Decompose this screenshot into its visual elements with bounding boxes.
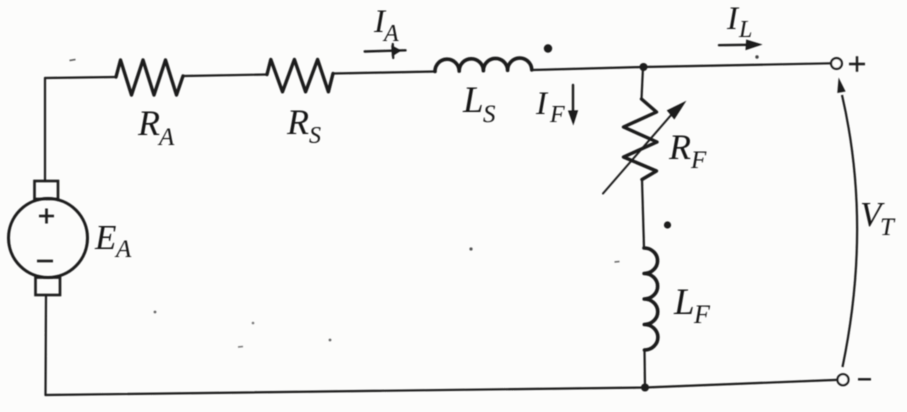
svg-text:I: I <box>535 86 549 122</box>
svg-text:F: F <box>690 147 707 174</box>
svg-text:F: F <box>693 300 711 329</box>
svg-text:A: A <box>382 21 399 47</box>
svg-text:R: R <box>668 127 691 167</box>
svg-text:T: T <box>880 214 896 241</box>
svg-text:R: R <box>137 103 160 143</box>
svg-text:L: L <box>462 80 484 121</box>
svg-text:I: I <box>726 1 740 37</box>
svg-text:S: S <box>483 101 496 128</box>
svg-text:R: R <box>286 102 309 142</box>
svg-text:L: L <box>738 17 752 43</box>
svg-text:A: A <box>114 236 132 263</box>
svg-text:L: L <box>673 282 695 323</box>
svg-text:A: A <box>157 124 175 151</box>
svg-text:F: F <box>549 102 565 128</box>
svg-text:S: S <box>309 123 321 149</box>
svg-text:E: E <box>94 218 116 257</box>
